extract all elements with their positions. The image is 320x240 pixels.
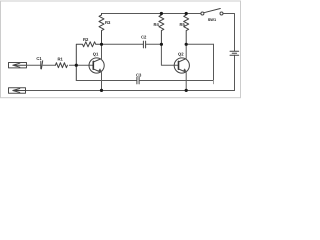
wire J1 to C1 — [27, 64, 41, 66]
svg-text:R4: R4 — [154, 22, 160, 27]
node Q1 base — [75, 64, 78, 67]
wire battery bottom to bottom rail — [234, 55, 236, 90]
svg-text:C2: C2 — [141, 35, 147, 40]
svg-text:R5: R5 — [180, 22, 186, 27]
switch SW1 contact circles — [201, 12, 223, 15]
capacitor C2 — [143, 41, 145, 48]
node Q2 collector — [185, 43, 188, 46]
capacitor C3 — [137, 77, 139, 84]
connector J2 — [9, 88, 26, 93]
wire Q2 base down and right — [161, 44, 178, 65]
wire R1 to Q1 base — [69, 64, 93, 66]
resistor R3 — [99, 14, 104, 45]
svg-text:SW1: SW1 — [208, 17, 217, 22]
capacitor C1 — [41, 61, 43, 69]
wire Q2 collector up — [185, 44, 187, 58]
border frame — [1, 1, 241, 98]
wire top rail — [102, 13, 201, 15]
wire switch to right corner and down to battery — [223, 14, 234, 51]
resistor R2 — [76, 42, 101, 81]
wire feedback top to Q2 collector junction — [186, 43, 213, 45]
node R5 top rail — [185, 12, 188, 15]
wire C3 right to feedback riser — [140, 44, 214, 80]
wire Q2 emitter down — [185, 73, 187, 91]
transistor Q1 — [89, 58, 104, 73]
resistor R1 — [55, 63, 67, 68]
wire Q1 emitter down — [101, 73, 103, 91]
node Q1 collector — [100, 43, 103, 46]
wire C1 to R1 — [43, 64, 55, 66]
wire collector junction to C2 — [102, 43, 143, 45]
node Q1 emitter rail — [100, 89, 103, 92]
svg-text:C1: C1 — [36, 56, 42, 61]
wire Q1 collector up — [101, 44, 103, 58]
wire base Q1 feedback row to C3 — [76, 80, 136, 82]
svg-text:R1: R1 — [58, 57, 64, 62]
svg-text:Q1: Q1 — [93, 51, 99, 56]
wire bottom rail — [26, 90, 235, 92]
node R4 top rail — [160, 12, 163, 15]
node Q2 emitter rail — [185, 89, 188, 92]
wire stub below feedback corner — [213, 81, 215, 84]
connector J1 — [9, 63, 27, 68]
transistor Q2 — [174, 58, 189, 73]
resistor R4 — [159, 14, 164, 45]
svg-text:Q2: Q2 — [178, 51, 184, 56]
junction dots — [75, 12, 188, 92]
svg-text:C3: C3 — [136, 72, 142, 77]
switch SW1 lever — [204, 9, 220, 13]
wire C2 to Q2 base junction — [146, 43, 161, 45]
svg-text:R2: R2 — [83, 37, 89, 42]
node Q2 base — [160, 43, 163, 46]
resistor R5 — [184, 14, 189, 45]
battery BT1 — [230, 51, 239, 55]
svg-text:R3: R3 — [105, 20, 111, 25]
